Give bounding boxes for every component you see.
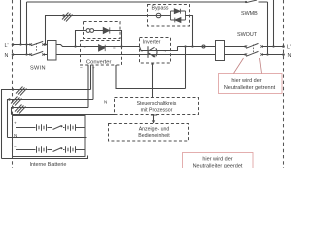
SWIN switch xyxy=(30,41,45,55)
charger wire xyxy=(84,30,121,32)
svg-text:Steuerschaltkreis: Steuerschaltkreis xyxy=(137,101,177,107)
svg-text:−: − xyxy=(14,144,17,149)
junction dot bypass to output xyxy=(191,45,193,47)
wire battery mid B xyxy=(8,137,87,139)
thyristor pair in bypass xyxy=(171,9,186,23)
wire riser N to top rail xyxy=(26,2,28,55)
fuse circle on L' output xyxy=(202,45,205,48)
svg-text:~: ~ xyxy=(83,45,86,50)
wire horizontal return from converter xyxy=(116,65,186,89)
output terminals xyxy=(282,45,285,48)
svg-text:L': L' xyxy=(5,43,9,49)
svg-text:N: N xyxy=(288,53,292,59)
fuse link symbol on bypass feed xyxy=(62,13,73,22)
fuse link battery wire C xyxy=(15,105,26,114)
battery string row 1 xyxy=(16,124,85,152)
wire bypass output drop xyxy=(190,16,193,47)
wire bypass feed riser xyxy=(46,16,148,45)
charger box xyxy=(84,22,121,39)
left boundary dashed line xyxy=(12,0,14,168)
wire charger output drop xyxy=(120,31,122,47)
svg-text:Bedieneinheit: Bedieneinheit xyxy=(138,133,170,139)
wire external riser right to L' output xyxy=(273,0,275,47)
svg-text:~: ~ xyxy=(164,49,167,54)
Inverter box xyxy=(140,38,171,64)
svg-text:SWOUT: SWOUT xyxy=(237,32,258,38)
wire L'/DC bus main horizontal xyxy=(58,45,284,47)
wire converter battery drop plus xyxy=(90,65,92,90)
svg-text:Interne Batterie: Interne Batterie xyxy=(30,162,67,168)
svg-text:N: N xyxy=(14,133,17,138)
SWOUT switch xyxy=(245,43,263,56)
wire output return riser xyxy=(185,47,187,89)
svg-text:Converter: Converter xyxy=(86,60,112,66)
svg-text:N: N xyxy=(5,53,9,59)
Steuerschaltkreis box xyxy=(115,98,199,115)
wire charger feed riser xyxy=(76,31,84,47)
wire inverter to control circuit xyxy=(152,64,154,98)
inverter IGBT symbol xyxy=(148,46,157,58)
annotation red box neutral disconnected xyxy=(219,74,283,94)
wire SWMB drop to N output xyxy=(267,2,269,55)
filter box input xyxy=(48,41,57,61)
svg-text:+: + xyxy=(14,121,17,126)
annotation red box neutral earthed xyxy=(183,153,254,171)
wire top rail to SWMB xyxy=(27,1,268,3)
arrow control to display xyxy=(151,114,157,116)
annotation pointer lines xyxy=(234,58,262,74)
charger transformer circles xyxy=(86,29,90,33)
Anzeige box xyxy=(109,124,189,142)
svg-text:Bypass: Bypass xyxy=(152,5,169,11)
wire battery A xyxy=(2,90,91,159)
svg-text:Inverter: Inverter xyxy=(143,39,161,45)
wire converter battery drop mid xyxy=(92,65,94,100)
wire N input xyxy=(13,54,58,56)
wire L' input xyxy=(13,44,58,46)
charger diode xyxy=(103,27,110,33)
junction dots right xyxy=(266,53,268,55)
fuse circle in bypass xyxy=(156,13,161,18)
svg-text:=: = xyxy=(141,49,144,54)
Bypass box xyxy=(148,5,190,27)
junction dot charger to DC bus xyxy=(120,45,122,47)
junction dot output riser xyxy=(184,45,186,47)
svg-text:−: − xyxy=(80,66,83,71)
svg-text:mit Prozessor: mit Prozessor xyxy=(141,108,173,114)
junction dot inverter control tap xyxy=(151,63,153,65)
fuse link battery wire B xyxy=(11,97,22,106)
filter box output xyxy=(216,41,225,61)
junction dots input xyxy=(12,43,15,46)
wire control to display unit xyxy=(153,115,155,124)
wire converter battery drop minus xyxy=(87,65,89,108)
wire riser external L left xyxy=(20,0,22,45)
wire battery top C to control xyxy=(12,114,116,116)
wire battery B xyxy=(8,100,94,138)
converter diode xyxy=(99,45,106,51)
Interne Batterie box xyxy=(13,116,86,157)
svg-text:hier wird der: hier wird der xyxy=(202,157,232,163)
svg-text:Neutralleiter geerdet: Neutralleiter geerdet xyxy=(193,163,243,168)
svg-text:SWIN: SWIN xyxy=(30,66,46,72)
wire battery C xyxy=(12,108,89,115)
wire N through xyxy=(58,54,284,56)
right boundary dashed line xyxy=(283,0,285,168)
svg-text:SWMB: SWMB xyxy=(241,11,258,17)
svg-text:L': L' xyxy=(287,45,291,51)
Converter box xyxy=(81,41,122,66)
svg-text:=: = xyxy=(113,45,116,50)
SWMB switch xyxy=(247,0,258,3)
svg-text:N: N xyxy=(104,100,107,105)
svg-text:hier wird der: hier wird der xyxy=(231,78,261,84)
svg-text:Neutralleiter getrennt: Neutralleiter getrennt xyxy=(224,85,276,91)
svg-text:+: + xyxy=(92,66,95,71)
svg-text:Anzeige- und: Anzeige- und xyxy=(139,127,170,133)
wire inside bypass xyxy=(148,15,193,17)
fuse link battery wire A xyxy=(16,87,27,96)
wire battery bottom A xyxy=(2,156,88,159)
